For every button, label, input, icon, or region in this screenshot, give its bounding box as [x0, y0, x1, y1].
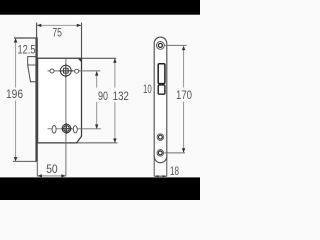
dimension 170 — [183, 46, 185, 87]
wire: 196 bottom extension — [13, 160, 38, 162]
top black band — [0, 0, 200, 15]
wire: leader bottom — [164, 152, 185, 154]
screw hole right — [75, 69, 79, 73]
lock case — [38, 58, 82, 143]
svg-text:50: 50 — [46, 162, 58, 176]
centerline hub row — [48, 70, 101, 72]
slot hole right — [73, 126, 77, 133]
case top-right chamfer — [78, 59, 82, 63]
lower screw 2 — [157, 150, 164, 157]
cylinder/magnet circle — [62, 124, 71, 133]
svg-text:12.5: 12.5 — [18, 42, 36, 56]
svg-text:18: 18 — [170, 164, 179, 178]
centerline backset vertical — [65, 59, 67, 176]
wire: leader top — [165, 44, 187, 46]
screw hole left — [50, 69, 54, 73]
centerline cylinder row — [48, 128, 101, 130]
wire: extension line left of 75 dim — [36, 23, 38, 38]
dimension 90 — [96, 72, 98, 88]
svg-text:170: 170 — [176, 88, 192, 102]
svg-text:196: 196 — [6, 87, 23, 101]
dimension 132 — [114, 59, 116, 88]
wire: 196 top extension — [14, 37, 38, 39]
wire: faceplate side extensions to 18 dim — [153, 155, 155, 176]
aux cutout — [158, 85, 165, 94]
dimension 50 — [36, 162, 38, 177]
svg-text:75: 75 — [52, 25, 62, 39]
faceplate edge strip — [35, 38, 37, 162]
bottom black band — [0, 177, 200, 200]
dimension 75 line — [37, 24, 82, 26]
lower screw 1 — [157, 134, 164, 141]
slot hole left — [52, 126, 56, 134]
wire: extension line right of 75 dim — [81, 23, 83, 59]
svg-text:132: 132 — [113, 89, 129, 103]
dimension 18 — [154, 175, 167, 177]
wire: case bottom extension — [77, 142, 118, 144]
wire: case top extension — [82, 57, 117, 59]
svg-text:90: 90 — [98, 89, 108, 103]
top screw — [157, 42, 165, 50]
svg-text:10: 10 — [143, 82, 152, 96]
latch bolt — [28, 57, 36, 82]
dimension 196 — [15, 39, 17, 88]
hub (spindle) — [60, 65, 71, 76]
faceplate (stadium) — [154, 37, 167, 163]
latch cutout — [158, 64, 165, 84]
